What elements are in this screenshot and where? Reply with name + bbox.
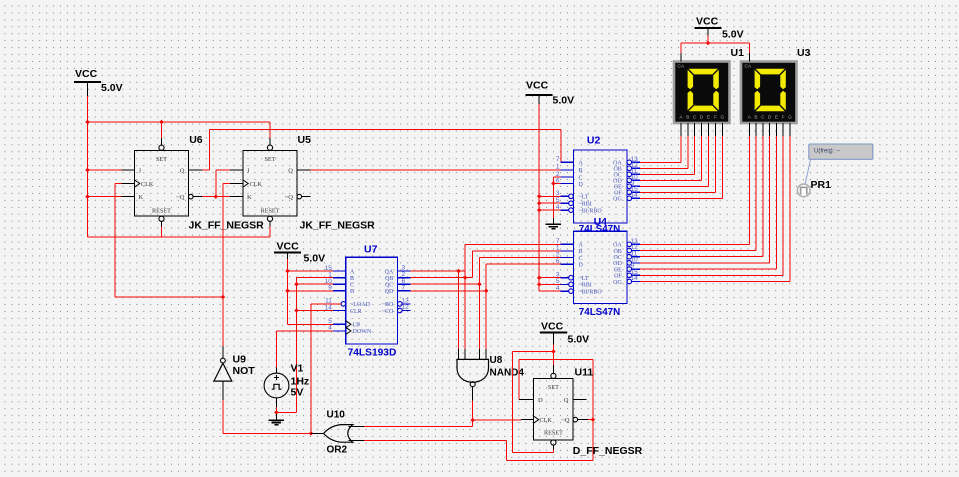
svg-text:B: B [350,276,354,282]
svg-text:SET: SET [156,156,167,163]
svg-text:D: D [350,289,355,295]
svg-text:VCC: VCC [696,16,719,28]
svg-text:OC: OC [613,255,621,261]
svg-text:VCC: VCC [526,80,549,92]
power VCC symbol (above U11) [540,321,589,346]
svg-text:CLK: CLK [250,181,263,188]
svg-text:7: 7 [402,284,406,291]
junction CA rail [706,41,711,46]
svg-text:Q: Q [288,168,293,175]
svg-text:~Q: ~Q [561,417,570,424]
junction QA/NAND input 1 [456,269,461,274]
svg-text:U4: U4 [594,216,608,228]
flip-flop U5 (JK_FF_NEGSR) [230,138,311,226]
svg-text:Q: Q [564,397,569,404]
svg-text:U10: U10 [327,410,346,421]
svg-text:5.0V: 5.0V [101,82,123,94]
svg-text:OG: OG [613,197,622,203]
wire U11.~Q feedback to U11.D [519,360,593,420]
junction U2.D [551,181,556,186]
svg-text:B: B [754,114,757,119]
svg-text:U8: U8 [490,355,503,366]
junction U4.~LT [537,275,542,280]
svg-text:QA: QA [385,269,394,275]
svg-text:U11: U11 [575,367,594,379]
ground symbol under U2 [546,224,561,228]
junction U11.~Q node [591,417,596,422]
svg-text:~LT: ~LT [579,195,589,201]
junction U11.SET VCC node [551,349,556,354]
svg-text:5V: 5V [291,387,304,399]
junction U7.A [285,269,290,274]
ground symbol under V1 [269,420,284,424]
svg-text:JK_FF_NEGSR: JK_FF_NEGSR [300,220,376,232]
flip-flop U11 (D_FF_NEGSR) [519,365,588,449]
svg-text:~BO: ~BO [382,302,394,308]
svg-text:F: F [714,114,717,119]
OR gate U10 OR2 (points left) [311,425,364,443]
clock source V1 1Hz 5V [264,367,289,407]
wire ground net to U7.B U7.C U7.CLR [276,278,333,413]
svg-text:U2: U2 [587,135,601,147]
svg-text:~BI/RBO: ~BI/RBO [579,289,603,295]
svg-text:OF: OF [614,274,622,280]
junction U2.~LT [537,194,542,199]
wire U7.QA-QD rows to U4 inputs and NAND4 inputs [410,244,560,349]
svg-text:RESET: RESET [544,430,563,437]
power VCC symbol (above U2) [526,80,574,107]
svg-text:VCC: VCC [277,241,300,253]
svg-text:CA: CA [678,64,685,70]
IC U7 74LS193D up/down counter [325,257,411,344]
svg-text:OB: OB [613,249,621,255]
junction SET U6 branch [159,120,164,125]
svg-text:CLK: CLK [540,417,553,424]
svg-text:NOT: NOT [233,365,256,377]
svg-text:74LS47N: 74LS47N [579,307,620,318]
svg-text:G: G [788,114,792,119]
wire VCC to U6.J y=170 [88,169,122,171]
svg-text:SET: SET [548,384,559,391]
svg-text:12: 12 [402,304,410,311]
svg-text:DOWN: DOWN [353,329,372,335]
svg-text:14: 14 [631,275,639,282]
svg-text:D_FF_NEGSR: D_FF_NEGSR [573,445,643,457]
svg-text:CLK: CLK [141,181,154,188]
svg-text:C: C [350,283,354,289]
wire VCC to U11.SET and U11.RESET [512,344,553,452]
svg-text:PR1: PR1 [811,179,832,191]
svg-text:RESET: RESET [152,208,171,215]
junction U7.C [294,282,299,287]
svg-text:QC: QC [385,283,393,289]
wire U6.~Q to U5.J and U5.K [202,170,230,197]
wire VCC to display common anodes [681,36,749,54]
svg-text:~RBI: ~RBI [579,283,592,289]
wire bus U2 outputs OA-OG to U1 segment pins [640,136,722,198]
wire V1 clock to U7.DOWN [277,331,333,367]
junction U2.~RBI [537,201,542,206]
IC U2 74LS47N BCD-to-7seg decoder [556,150,640,223]
wire VCC rail left vertical x=87.5 [87,96,89,237]
wire U2.C and U2.D to ground [553,177,560,224]
junction QC/NAND input 3 [477,282,482,287]
flip-flop U6 (JK_FF_NEGSR) [121,138,202,226]
7-segment display U1 [674,53,730,136]
svg-text:74LS193D: 74LS193D [348,348,397,359]
junction U7.D [285,289,290,294]
wire VCC to U7.A U7.D U7.UP [288,259,333,324]
svg-text:SET: SET [264,156,275,163]
probe PR1 symbol [797,184,810,197]
svg-text:5.0V: 5.0V [568,334,590,346]
junction U4.~RBI [537,282,542,287]
svg-text:K: K [247,194,252,201]
svg-text:1: 1 [556,164,560,171]
svg-text:~RBI: ~RBI [579,202,592,208]
NAND gate U8 NAND4 (points down) [457,349,489,401]
NOT gate U9 (points up) [214,346,232,400]
svg-text:F: F [782,114,785,119]
svg-text:UP: UP [353,323,361,329]
power VCC symbol (left, feeds U6/U5) [74,68,123,96]
wire SET rail y=122 from VCC to U5.SET [88,122,271,138]
junction QB/NAND input 2 [463,275,468,280]
svg-text:U7: U7 [364,244,378,256]
junction NAND output node [470,418,475,423]
wire U11.~Q to OR2 input B [364,420,593,461]
svg-text:U6: U6 [189,134,203,146]
svg-text:CA: CA [745,64,752,70]
svg-text:V1: V1 [291,363,304,375]
svg-text:~Q: ~Q [176,194,185,201]
svg-text:E: E [775,114,778,119]
svg-text:B: B [686,114,689,119]
svg-text:A: A [579,161,584,167]
junction V1 ground [274,410,279,415]
wire VCC x=539.2 vertical to U2/U4 lamp-test pins [539,104,560,291]
svg-text:U1: U1 [731,47,745,59]
svg-text:~Q: ~Q [285,194,294,201]
svg-text:Q: Q [180,168,185,175]
junction QD/NAND input 4 [484,289,489,294]
svg-text:OA: OA [613,243,622,249]
junction clock net [221,295,226,300]
junction U6.K [85,194,90,199]
svg-text:C: C [579,256,583,262]
svg-text:C: C [693,114,697,119]
svg-text:14: 14 [631,192,639,199]
svg-text:5.0V: 5.0V [304,253,326,265]
power VCC symbol (above displays U1/U3) [695,16,744,41]
svg-text:QD: QD [385,289,394,295]
svg-text:~BI/RBO: ~BI/RBO [579,208,603,214]
svg-text:B: B [579,249,583,255]
junction U6.~Q node [214,194,219,199]
svg-text:D: D [579,262,584,268]
svg-text:U5: U5 [298,134,312,146]
svg-text:VCC: VCC [541,321,564,333]
junction U6.J [85,168,90,173]
wire VCC to U6.K y=196.6 [88,196,122,198]
IC U4 74LS47N BCD-to-7seg decoder [556,231,640,303]
wire NOT U9 output to U6.CLK and U5.CLK [115,184,230,346]
svg-text:~LT: ~LT [579,276,589,282]
wire U5.Q to U2.B [311,169,561,171]
svg-text:OD: OD [613,261,622,267]
junction U7.CLR [294,308,299,313]
svg-text:VCC: VCC [75,68,98,80]
junction U2.~BI/RBO [537,208,542,213]
wire RESET rail y=237 [88,226,271,237]
wire U6.Q to U2.A [202,130,561,171]
probe PR1 readout box U(freq) [805,144,873,184]
svg-text:K: K [139,194,144,201]
svg-text:OR2: OR2 [327,445,348,456]
svg-text:U3: U3 [797,47,811,59]
svg-text:G: G [720,114,724,119]
svg-text:~CO: ~CO [382,309,394,315]
svg-text:U9: U9 [233,354,247,366]
svg-text:~LOAD: ~LOAD [350,302,371,308]
svg-text:A: A [579,243,584,249]
wire OR2 output to NOT input and clock risers [223,400,311,434]
svg-text:RESET: RESET [261,208,280,215]
junction OR2 output node [309,431,314,436]
power VCC symbol (left of U7) [274,241,325,265]
wire NAND4 output to U11.CLK and OR2 input A [364,401,521,427]
svg-text:C: C [579,175,583,181]
svg-text:5.0V: 5.0V [722,29,744,41]
svg-text:OG: OG [613,280,622,286]
svg-text:7: 7 [556,156,560,163]
wire V1 minus to ground [275,407,277,420]
svg-text:B: B [579,168,583,174]
wire bus U4 outputs OA-OG to U3 segment pins [640,136,790,281]
svg-text:A: A [350,269,355,275]
svg-text:D: D [538,397,543,404]
svg-text:CLR: CLR [350,309,362,315]
junction VCC/SET rail [85,120,90,125]
svg-text:OE: OE [614,267,622,273]
svg-text:E: E [707,114,710,119]
svg-text:JK_FF_NEGSR: JK_FF_NEGSR [189,220,265,232]
svg-text:QB: QB [385,276,393,282]
svg-text:D: D [579,182,584,188]
svg-text:5.0V: 5.0V [553,95,575,107]
svg-text:U(freq): --: U(freq): -- [814,149,840,155]
wire OR2 output to U7.~LOAD [311,304,341,434]
7-segment display U3 [741,53,797,136]
